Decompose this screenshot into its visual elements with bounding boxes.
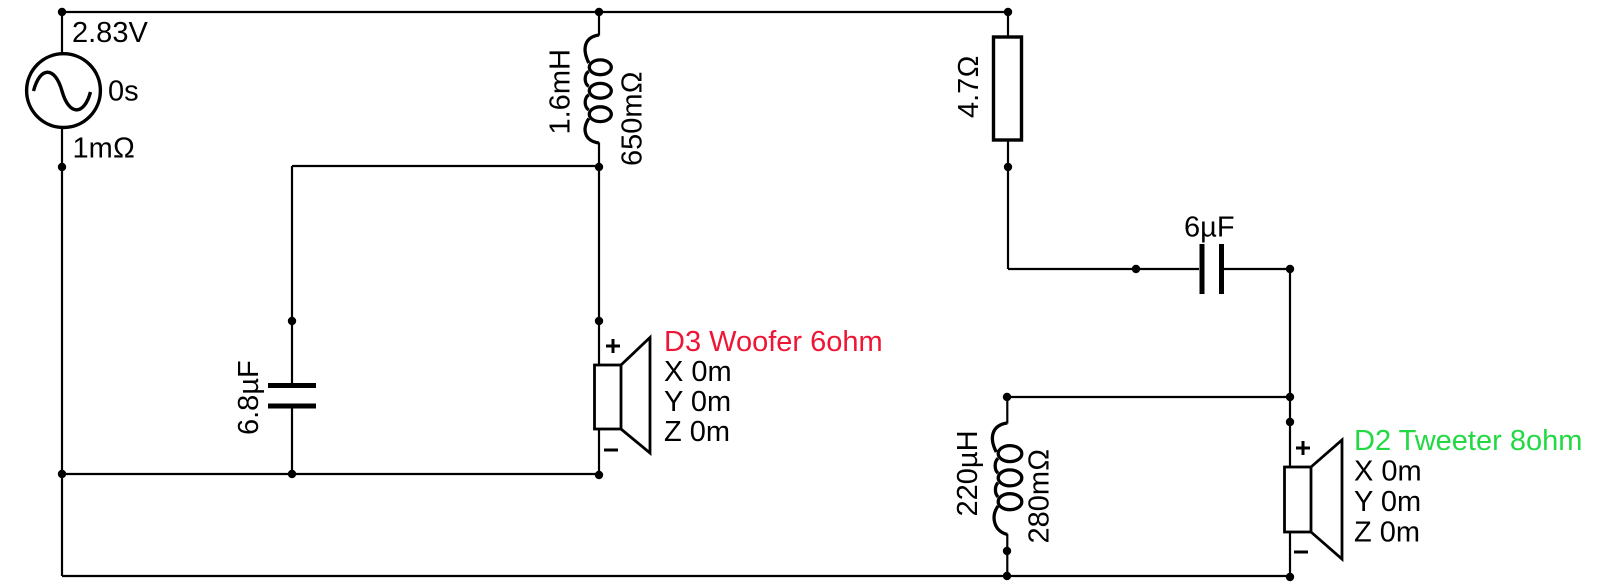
capacitor C3 6uF plates bbox=[1202, 244, 1222, 294]
woofer minus sign bbox=[604, 449, 618, 452]
node dot woofer top bbox=[595, 317, 603, 325]
svg-text:Z 0m: Z 0m bbox=[664, 416, 730, 448]
node dot cap branch mid bbox=[288, 317, 296, 325]
node dot wire to C3 bbox=[1132, 265, 1140, 273]
resistor R1 box bbox=[994, 37, 1022, 140]
AC source V1 circle bbox=[27, 54, 101, 128]
node dot L1 top bbox=[595, 8, 603, 16]
svg-text:X 0m: X 0m bbox=[1354, 456, 1422, 488]
woofer plus sign bbox=[606, 339, 620, 353]
svg-text:1.6mH: 1.6mH bbox=[545, 49, 577, 134]
node dot top-left bbox=[58, 8, 66, 16]
inductor L2 coil bbox=[992, 423, 1021, 535]
svg-text:Y 0m: Y 0m bbox=[1354, 486, 1421, 518]
speaker D2 tweeter symbol bbox=[1285, 440, 1343, 559]
inductor L1 coil bbox=[585, 35, 611, 143]
speaker D3 woofer symbol bbox=[595, 338, 651, 454]
wire horizontal y474 bbox=[62, 473, 599, 475]
wire cap C3 right bbox=[1224, 268, 1290, 270]
node dot L1 bottom bbox=[595, 163, 603, 171]
svg-text:Y 0m: Y 0m bbox=[664, 386, 731, 418]
wire tweeter bottom lead bbox=[1289, 532, 1291, 577]
node dot right y397 bbox=[1286, 393, 1294, 401]
svg-text:Z 0m: Z 0m bbox=[1354, 517, 1420, 549]
wire right rail to tweeter bbox=[1289, 269, 1291, 467]
wire cap C2 bottom lead bbox=[291, 408, 293, 474]
tweeter minus sign bbox=[1294, 551, 1308, 554]
wire L1 top lead bbox=[598, 12, 600, 36]
wire mid horizontal y166 bbox=[292, 165, 599, 167]
AC source V1 sine wave bbox=[34, 72, 91, 110]
wire resistor top lead bbox=[1007, 12, 1009, 37]
svg-text:D3 Woofer 6ohm: D3 Woofer 6ohm bbox=[664, 326, 883, 358]
wire woofer bottom lead bbox=[598, 429, 600, 475]
wire L2 top lead bbox=[1006, 397, 1008, 424]
node dot L2 bottom rail bbox=[1003, 572, 1011, 580]
svg-text:650mΩ: 650mΩ bbox=[617, 71, 649, 166]
wire cap C2 top lead bbox=[291, 166, 293, 383]
node dot L2 top bbox=[1003, 393, 1011, 401]
svg-text:280mΩ: 280mΩ bbox=[1024, 449, 1056, 544]
svg-text:X 0m: X 0m bbox=[664, 356, 732, 388]
svg-text:0s: 0s bbox=[108, 76, 139, 108]
wire resistor bottom lead bbox=[1007, 140, 1009, 269]
wire left rail down bbox=[61, 167, 63, 576]
node dot L2 bottom bbox=[1003, 547, 1011, 555]
wire L2 horizontal y397 bbox=[1007, 396, 1290, 398]
wire L2 bottom lead bbox=[1006, 534, 1008, 576]
capacitor C2 6.8uF plates bbox=[268, 386, 316, 407]
wire bottom rail bbox=[62, 575, 1289, 577]
svg-text:220µH: 220µH bbox=[952, 430, 984, 516]
node dot woofer bottom bbox=[595, 471, 603, 479]
node dot tweeter bottom rail bbox=[1286, 573, 1294, 581]
svg-text:2.83V: 2.83V bbox=[72, 17, 148, 49]
svg-text:6µF: 6µF bbox=[1184, 212, 1235, 244]
node dot right corner bbox=[1286, 265, 1294, 273]
svg-text:1mΩ: 1mΩ bbox=[73, 133, 136, 165]
node dot cap bottom junction bbox=[288, 470, 296, 478]
tweeter plus sign bbox=[1296, 441, 1310, 455]
svg-text:4.7Ω: 4.7Ω bbox=[953, 55, 985, 118]
wire to cap C3 left bbox=[1008, 268, 1199, 270]
node dot below source bbox=[58, 163, 66, 171]
node dot R1 top bbox=[1004, 8, 1012, 16]
wire L1 bottom to woofer bbox=[598, 143, 600, 366]
node dot tweeter top bbox=[1286, 418, 1294, 426]
svg-text:D2 Tweeter 8ohm: D2 Tweeter 8ohm bbox=[1354, 425, 1582, 457]
wire source bottom lead bbox=[61, 127, 63, 168]
svg-text:6.8µF: 6.8µF bbox=[233, 360, 265, 435]
node dot left y474 bbox=[58, 470, 66, 478]
wire source top lead bbox=[61, 12, 63, 55]
wire top rail bbox=[62, 11, 1008, 13]
node dot below resistor bbox=[1004, 163, 1012, 171]
